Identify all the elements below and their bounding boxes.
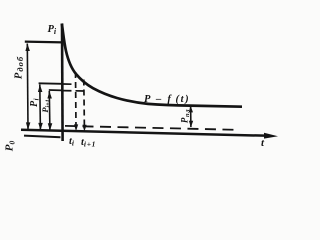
svg-text:Pдоб: Pдоб <box>13 56 25 79</box>
arrow down t_i+1 <box>82 125 86 132</box>
arrow down P_pl <box>189 121 193 128</box>
svg-text:P–f(t): P–f(t) <box>144 94 190 105</box>
dimension line P_i+1 <box>48 91 51 130</box>
dimension line P_pl <box>190 106 192 128</box>
svg-text:ti+1: ti+1 <box>81 137 96 149</box>
arrow up P_i <box>38 85 43 93</box>
baseline segment below t axis (left) <box>24 136 61 138</box>
arrow up P_i+1 <box>47 91 52 99</box>
t axis arrowhead <box>264 133 278 139</box>
P_i level dashed extension <box>64 83 76 85</box>
svg-text:t: t <box>261 137 265 149</box>
arrow down t_i <box>74 124 78 131</box>
arrow down P_i+1 <box>48 123 53 130</box>
vertical dashed line t_i <box>75 72 78 128</box>
dimension line P_dob <box>26 44 29 130</box>
svg-text:ti: ti <box>69 136 75 148</box>
arrow down P_i <box>38 123 43 130</box>
t axis <box>21 130 270 136</box>
svg-text:Pi: Pi <box>48 24 57 36</box>
svg-text:Pi+1: Pi+1 <box>40 99 52 112</box>
svg-text:P0: P0 <box>4 141 17 152</box>
top level line (P_i level) <box>25 40 63 43</box>
arrow up P_dob <box>25 44 30 52</box>
P_i+1 level dashed extension <box>64 90 85 92</box>
curve P=f(t) <box>62 24 242 107</box>
arrow up P_pl <box>189 106 193 113</box>
P_i+1 level line <box>49 89 62 91</box>
svg-text:Pi: Pi <box>29 98 41 107</box>
horizontal dashed line (P_pl level) <box>65 126 237 130</box>
dimension line P_i <box>39 85 42 131</box>
vertical dashed line t_i+1 <box>83 80 86 129</box>
arrow down P_dob <box>26 122 31 129</box>
P axis <box>61 24 64 142</box>
svg-text:Pпл: Pпл <box>179 109 191 123</box>
P_i level line <box>39 82 62 85</box>
